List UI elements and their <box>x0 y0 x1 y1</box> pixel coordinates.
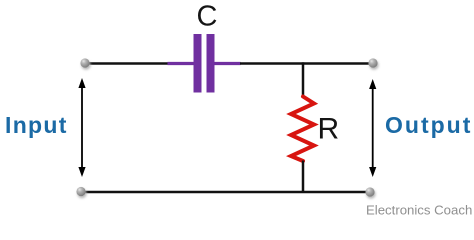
svg-text:Electronics Coach: Electronics Coach <box>366 203 472 218</box>
wire: top left segment <box>85 62 168 65</box>
wire: vertical from resistor to bottom wire <box>302 161 305 193</box>
terminal shadow bottom-left <box>77 189 86 198</box>
wire: top right segment <box>240 62 373 65</box>
svg-text:R: R <box>318 113 340 146</box>
wire: vertical from top junction to resistor <box>302 62 305 97</box>
terminal top-left <box>80 58 89 67</box>
output arrow (double-headed) <box>369 79 376 177</box>
terminal bottom-right <box>365 187 374 196</box>
terminal bottom-left <box>76 187 85 196</box>
wire: bottom segment <box>81 191 370 194</box>
terminal shadow top-left <box>81 60 90 69</box>
terminal shadow top-right <box>369 60 378 69</box>
svg-text:Input: Input <box>5 112 68 138</box>
input arrow (double-headed) <box>78 78 85 177</box>
capacitor C1 right plate <box>207 34 215 93</box>
capacitor C1 left plate <box>194 34 202 93</box>
terminal shadow bottom-right <box>366 189 375 198</box>
wire: capacitor left lead <box>168 62 195 65</box>
terminal top-right <box>368 58 377 67</box>
svg-text:Output: Output <box>385 112 472 138</box>
resistor R zigzag <box>291 97 314 162</box>
wire: capacitor right lead <box>214 62 241 65</box>
svg-text:C: C <box>197 1 218 33</box>
